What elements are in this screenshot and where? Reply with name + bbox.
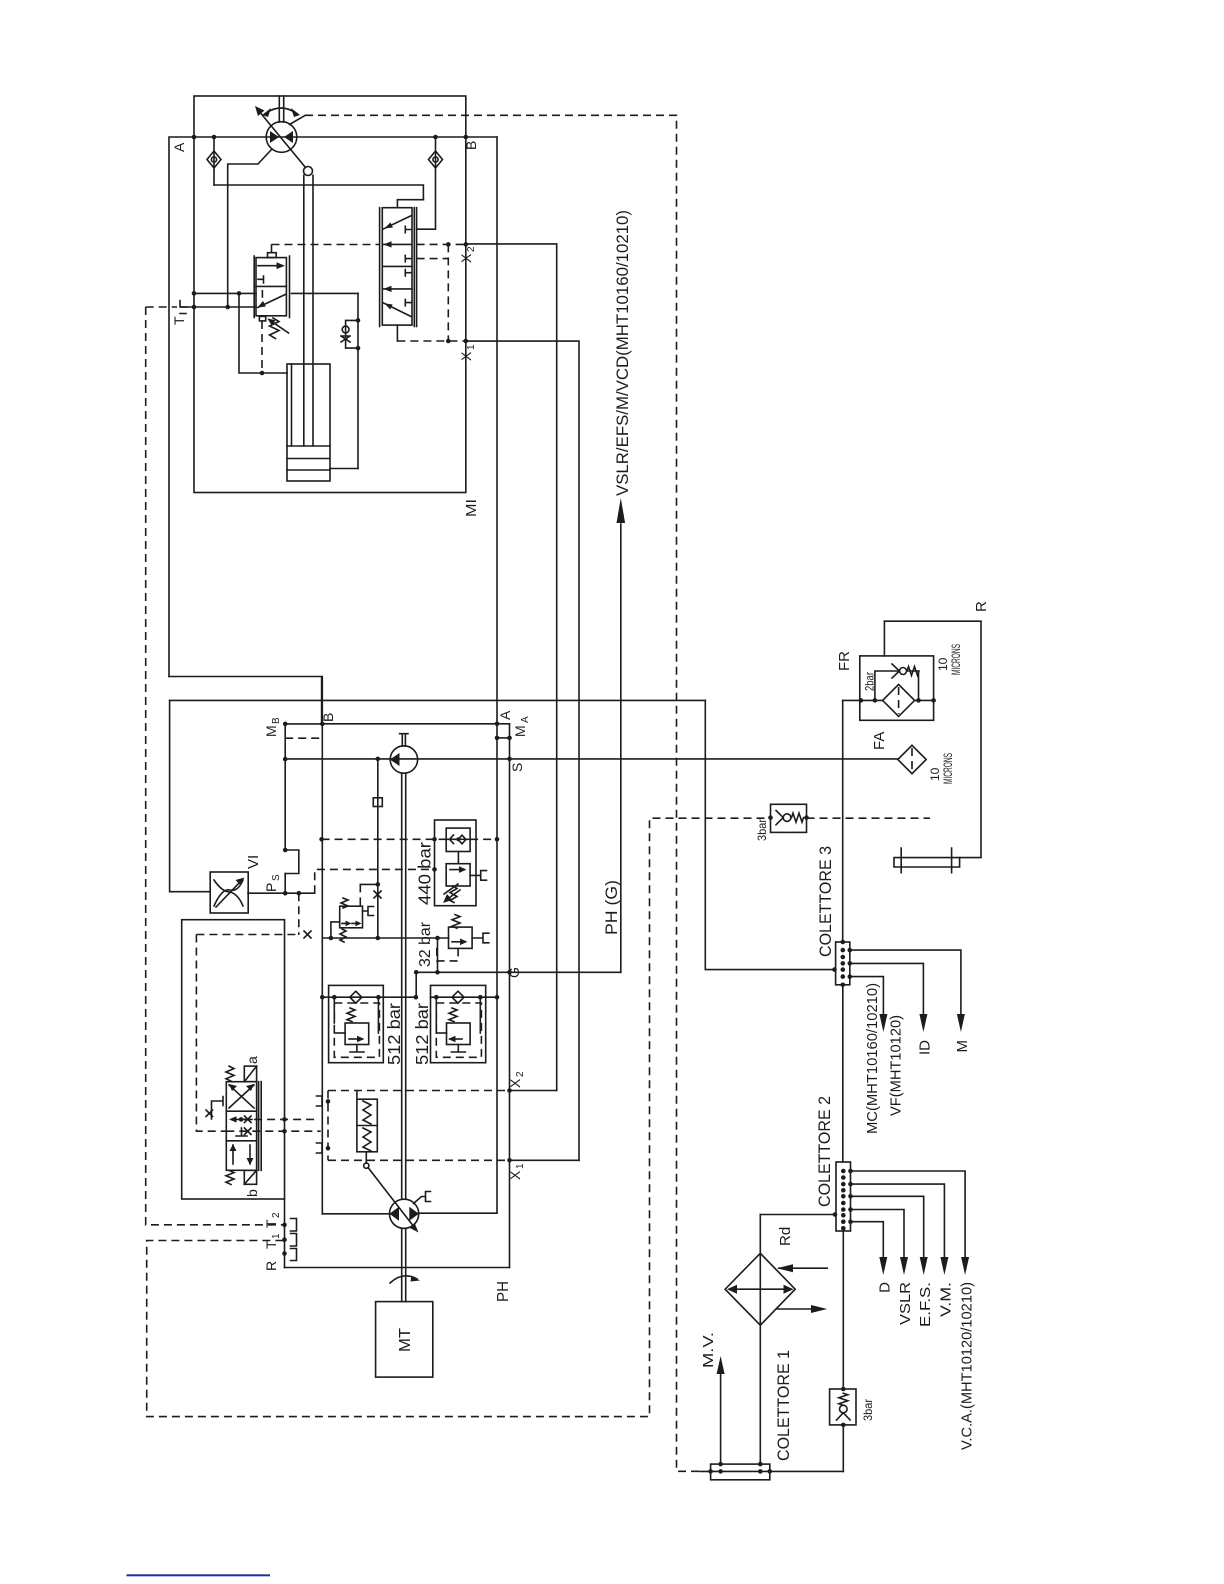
wire PH top edge / case line (170, 699, 706, 701)
valve V2 mid arrow line (382, 288, 412, 290)
svg-text:2: 2 (515, 1071, 526, 1077)
wire D output (851, 1222, 884, 1267)
svg-text:MC(MHT10160/10210): MC(MHT10160/10210) (864, 983, 881, 1134)
wire A pilot across (214, 185, 423, 200)
wire manifold3 to manifold2 (842, 985, 844, 1162)
svg-text:a: a (244, 1056, 260, 1064)
wire cylinder bottom to riser (330, 468, 358, 470)
throttle valve VI (210, 872, 248, 913)
svg-text:512 bar: 512 bar (384, 1003, 404, 1065)
wire B to pump (322, 1213, 389, 1215)
motor variable arrow (259, 111, 306, 168)
svg-text:3bar: 3bar (755, 819, 769, 841)
svg-text:X: X (458, 351, 474, 361)
svg-text:R: R (973, 601, 990, 612)
A-B outer enclosure top line (169, 137, 497, 677)
shaft to MT (402, 1228, 406, 1301)
wire X1 MI to PH riser (466, 341, 579, 1160)
svg-text:B: B (271, 717, 282, 724)
hydraulic motor M1 (266, 122, 297, 153)
svg-text:Rd: Rd (777, 1227, 794, 1246)
wire Mb-B port line (285, 723, 322, 725)
dashed system boundary upper left (146, 307, 284, 1225)
wire FR branch (843, 699, 860, 701)
node R (282, 1251, 287, 1256)
wire valve V2 bottom port (396, 325, 398, 341)
svg-text:E.F.S.: E.F.S. (917, 1282, 934, 1327)
M.V. vent arrow (720, 1373, 722, 1464)
counterbalance valve V1 body (256, 258, 286, 316)
svg-text:M: M (263, 725, 279, 737)
wire motor sense (solid diagonal to dashed) (290, 116, 306, 125)
svg-text:G: G (506, 967, 522, 978)
blue footer line (127, 1574, 271, 1576)
manifold COLETTORE 3 (836, 942, 850, 985)
valve V2 3-position body (382, 208, 412, 325)
FR bypass valve 2bar (875, 671, 919, 700)
pivot joint (304, 167, 313, 176)
svg-text:440 bar: 440 bar (415, 842, 435, 905)
dashed pilot net in block (196, 935, 226, 1132)
wire VM output (851, 1184, 945, 1267)
valve V3 mid section (232, 1118, 252, 1120)
svg-text:1: 1 (271, 1233, 282, 1239)
wire X2 MI to PH riser (466, 244, 557, 1091)
wire G gauge line (416, 971, 621, 973)
wire PH right edge (509, 724, 511, 1268)
control port brackets (317, 1096, 323, 1106)
pilot dashed to actuator (356, 1091, 358, 1100)
svg-text:VSLR/EFS/M/VCD(MHT10160/10210): VSLR/EFS/M/VCD(MHT10160/10210) (613, 210, 632, 496)
svg-text:R: R (263, 1261, 279, 1271)
svg-text:ID: ID (917, 1040, 934, 1055)
LS valve left loop (331, 922, 340, 938)
solenoid a (244, 1066, 256, 1082)
svg-text:A: A (520, 716, 531, 723)
FR filter element (883, 684, 915, 716)
wire ID output (850, 963, 924, 1024)
pilot dashed to valve mid (417, 258, 449, 260)
svg-text:COLETTORE 2: COLETTORE 2 (816, 1096, 834, 1207)
LS control valve U2 (340, 906, 363, 928)
tank symbol (894, 858, 960, 867)
cylinder C1 rod (304, 175, 313, 446)
wire V1 left port upper (194, 292, 256, 294)
svg-text:T: T (171, 316, 187, 325)
svg-text:X: X (507, 1078, 523, 1088)
wire radiator line (760, 1214, 836, 1216)
dashed pilot y to control (241, 1118, 318, 1120)
return filter FR (860, 656, 934, 720)
32 bar relief valve U4 (449, 927, 473, 948)
wire Mb column (284, 724, 286, 893)
wire VSLR output (851, 1210, 905, 1268)
svg-text:MT: MT (397, 1328, 414, 1352)
wire A to pump (419, 1212, 497, 1214)
wire right edge down to A port (496, 137, 498, 1213)
check valve on B line (417, 137, 436, 229)
svg-text:VF(MHT10120): VF(MHT10120) (888, 1015, 905, 1116)
svg-text:2: 2 (466, 246, 477, 252)
svg-text:COLETTORE 3: COLETTORE 3 (817, 846, 835, 957)
wire V1 right port to main riser (292, 292, 359, 294)
bypass check with orifice (346, 320, 358, 348)
arrow to VSLR EFS (617, 498, 626, 523)
svg-text:MICRONS: MICRONS (949, 644, 963, 675)
svg-text:32 bar: 32 bar (417, 921, 434, 967)
pilot to LS valve (360, 883, 378, 885)
svg-text:V.M.: V.M. (938, 1282, 955, 1317)
manifold COLETTORE 2 (836, 1162, 851, 1231)
valve V2 bottom section diagonal arrow (383, 303, 412, 317)
suction filter FA (898, 745, 926, 773)
svg-text:D: D (877, 1282, 894, 1293)
svg-text:S: S (509, 763, 525, 772)
solenoid b (244, 1170, 256, 1184)
wire PH bottom edge R line (285, 1267, 510, 1269)
dashed control box left edge (327, 1091, 329, 1161)
svg-text:X: X (507, 1170, 523, 1180)
cylinder C1 piston (287, 446, 330, 470)
svg-text:X: X (458, 253, 474, 263)
node R tank line (884, 621, 981, 857)
pilot dashed X2 line (272, 244, 380, 246)
valve V1 pilot cap (268, 253, 277, 258)
node T2 (282, 1223, 287, 1228)
svg-text:b: b (244, 1189, 260, 1197)
wire VCA output (851, 1171, 966, 1267)
valve V2 blocked port marks (405, 226, 411, 232)
pilot dashed X1 line (397, 340, 465, 342)
wire motor drain to T line (228, 150, 272, 308)
wire EFS output (851, 1196, 924, 1267)
dashed pilot z to control (226, 1130, 320, 1132)
pump case drain port (414, 1192, 431, 1204)
wire case line to collettore 3 (705, 700, 835, 969)
svg-text:B: B (463, 141, 479, 150)
svg-text:M: M (954, 1040, 971, 1053)
check valve 3bar lower (842, 1231, 844, 1389)
svg-text:M: M (512, 725, 528, 737)
wire VI to Ps (248, 892, 315, 894)
main pump shaft (402, 773, 406, 1199)
svg-text:P: P (263, 883, 279, 892)
cylinder C1 body (287, 364, 330, 481)
node x marks (374, 891, 381, 898)
motor MT box (376, 1302, 433, 1378)
pump swash lever pivot (364, 1163, 369, 1168)
check valve 3bar upper (771, 804, 807, 832)
svg-text:VSLR: VSLR (897, 1282, 914, 1325)
dashed system boundary upper right (305, 115, 699, 1471)
dashed X2 control line (328, 1090, 510, 1092)
svg-text:VI: VI (245, 855, 262, 869)
dashed Mb gauge link (285, 737, 322, 739)
valve V2 top section diagonal arrow (383, 216, 412, 230)
wire T line to V1 (181, 306, 256, 308)
valve V1 spring (270, 318, 280, 339)
svg-text:3bar: 3bar (861, 1399, 875, 1421)
relief valve 512bar right U6 (431, 985, 486, 1062)
check valve on A line (213, 137, 215, 185)
relief valve 512bar left U5 (329, 985, 384, 1062)
svg-text:2: 2 (271, 1212, 282, 1218)
pilot x bracket (212, 1097, 224, 1120)
svg-text:T: T (263, 1219, 279, 1228)
wire M output (850, 950, 961, 1024)
wire V1 pilot cross line (239, 293, 287, 373)
440 bar relief assembly U3 (435, 820, 477, 906)
pilot dashed from V1 to cylinder line (261, 321, 263, 373)
MI block boundary (194, 96, 466, 493)
svg-text:S: S (271, 874, 282, 881)
gear pump P2 (390, 746, 417, 773)
svg-text:V.C.A.(MHT10120/10210): V.C.A.(MHT10120/10210) (959, 1282, 976, 1450)
valve V1 bottom section symbols (261, 291, 263, 297)
svg-text:PH (G): PH (G) (603, 880, 621, 935)
svg-text:A: A (171, 142, 187, 152)
block to T ports column (284, 1199, 286, 1268)
dashed X1 control line (328, 1159, 510, 1161)
valve V3 top section cross (229, 1085, 254, 1108)
dashed x pilot to solenoid block (298, 893, 300, 935)
wire cylinder pressure riser (357, 293, 359, 468)
svg-text:10: 10 (936, 657, 950, 671)
radiator air arrows (779, 1267, 827, 1269)
svg-text:M.V.: M.V. (700, 1332, 717, 1368)
wire X2 PH to riser (510, 1090, 557, 1092)
svg-text:10: 10 (928, 767, 942, 781)
dashed system boundary VCA (147, 818, 771, 1416)
svg-text:A: A (497, 710, 513, 720)
valve V3 bottom section (233, 1145, 250, 1164)
svg-text:PH: PH (495, 1281, 512, 1302)
wire valve V2 top port (397, 200, 423, 208)
wire to manifold 1 (842, 1425, 844, 1472)
variable pump P1 (390, 1199, 419, 1228)
dashed LS line B-A (322, 838, 447, 840)
dashed VCA boundary right arm (807, 817, 931, 819)
wire S suction line (285, 758, 898, 760)
motor M1 drive shaft (279, 96, 283, 122)
motor rotation arrow at shaft (390, 1276, 417, 1283)
manifold COLETTORE 1 (711, 1464, 770, 1480)
svg-text:1: 1 (515, 1163, 526, 1169)
dashed pilot x from Ps (315, 869, 435, 893)
wire X1 PH to riser (510, 1159, 580, 1161)
wire G to VSLR riser (620, 524, 622, 972)
wire VI branch (170, 700, 211, 891)
radiator Rd (725, 1253, 795, 1325)
wire MC VF output (850, 977, 884, 1024)
svg-text:FA: FA (871, 732, 888, 750)
valve V1 drain square (259, 316, 265, 321)
svg-text:MI: MI (463, 499, 480, 517)
wire B riser to pump (321, 677, 323, 1214)
servo actuator with springs (357, 1099, 377, 1152)
node T port (146, 306, 177, 308)
junction dots on A-B line (192, 135, 197, 140)
svg-text:512 bar: 512 bar (412, 1003, 432, 1065)
solenoid pilot valve V3 (226, 1082, 256, 1171)
svg-text:FR: FR (836, 651, 853, 671)
motor M1 rotation arrow (266, 108, 296, 113)
svg-text:COLETTORE 1: COLETTORE 1 (775, 1350, 793, 1461)
solenoid block boundary (182, 920, 285, 1199)
svg-text:1: 1 (466, 344, 477, 350)
wire 32bar feed line (322, 937, 448, 939)
svg-text:2bar: 2bar (863, 672, 877, 691)
svg-text:T: T (263, 1240, 279, 1249)
wire A-Ma port line (322, 723, 509, 725)
svg-text:MICRONS: MICRONS (941, 753, 955, 784)
wire B feed from A-B enclosure (169, 677, 322, 724)
pump swash arrow (368, 1168, 415, 1228)
valve V2 pilot arrow (384, 243, 412, 245)
valve V1 top section arrow (258, 265, 281, 267)
wire A riser junction dots (496, 971, 498, 973)
wire charge line with orifice (377, 759, 379, 938)
node T1 (282, 1237, 287, 1242)
